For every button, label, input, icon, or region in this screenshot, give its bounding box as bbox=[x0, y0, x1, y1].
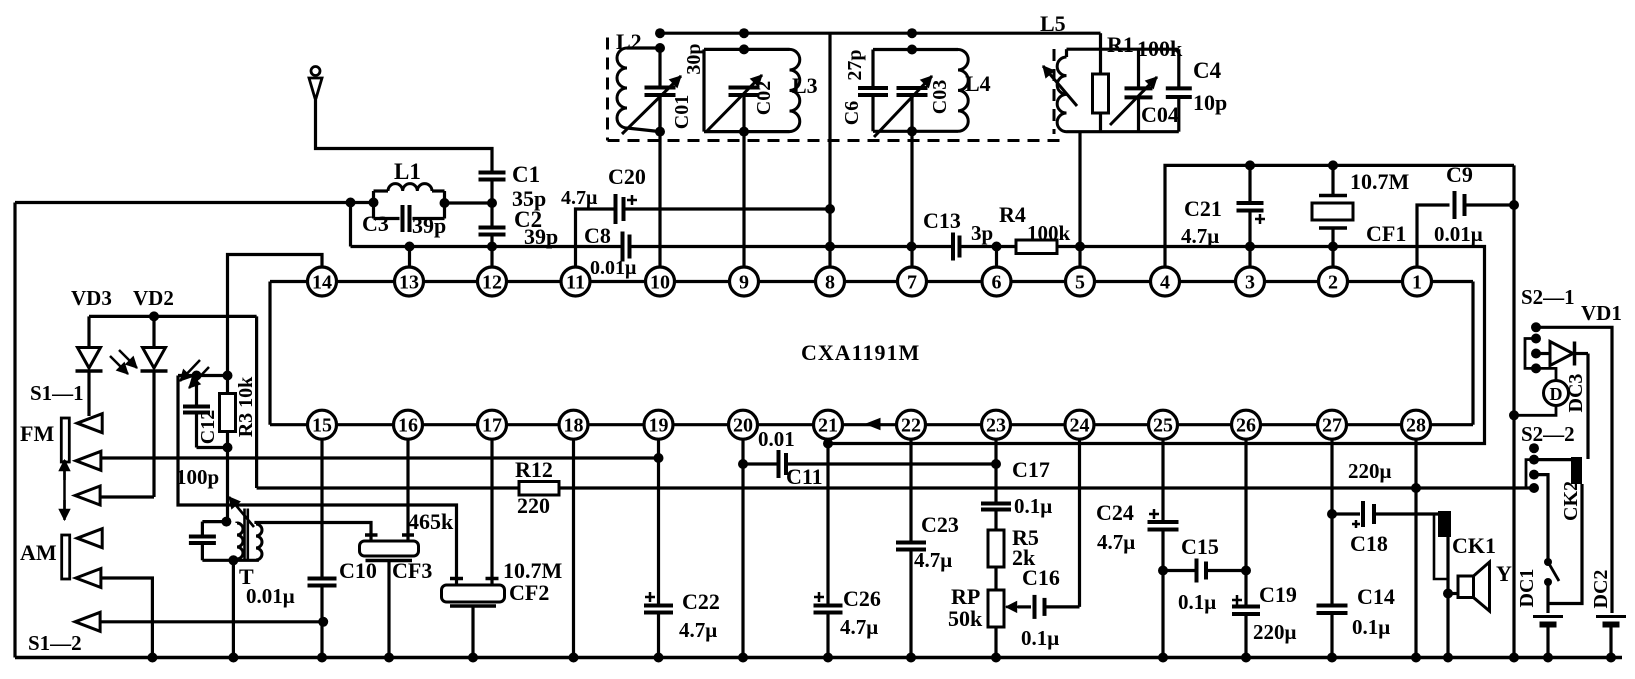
node: C22 ground bbox=[654, 653, 664, 663]
wire: outer frame left rail from top-left corner down to ground rail bbox=[13, 203, 16, 658]
node: CK1 ground bbox=[1443, 653, 1453, 663]
variable capacitor C01 bbox=[622, 48, 681, 134]
svg-text:S2—1: S2—1 bbox=[1521, 285, 1575, 309]
potentiometer RP bbox=[988, 567, 1004, 658]
svg-text:4.7μ: 4.7μ bbox=[840, 615, 878, 639]
capacitor C14 bbox=[1317, 606, 1348, 658]
wire: pin 27 drop bbox=[1330, 439, 1333, 606]
node: C15 at pin 26 drop bbox=[1241, 566, 1251, 576]
node: L1 tank feed junction bbox=[346, 198, 356, 208]
wire: AM contact down to ground bbox=[101, 578, 152, 658]
svg-text:9: 9 bbox=[739, 272, 749, 294]
wire: R3 bottom down to oscillator coil T bbox=[226, 448, 229, 522]
ceramic filter CF2 10.7M bbox=[442, 579, 505, 658]
node: C21 top bbox=[1245, 160, 1255, 170]
svg-text:CK2: CK2 bbox=[1560, 481, 1582, 521]
svg-text:C26: C26 bbox=[843, 586, 881, 611]
capacitor C12 bbox=[178, 376, 228, 448]
node: DC3 contact bbox=[1531, 363, 1541, 373]
wire: battery contact via jack switch bbox=[1534, 475, 1548, 562]
node: crystal bottom on rail bbox=[1328, 242, 1338, 252]
capacitor C23 bbox=[896, 543, 926, 658]
node: jack switch bottom bbox=[1544, 578, 1552, 586]
wire: 100p branch down and right to CF2 bbox=[178, 376, 457, 579]
tank box for C02/L3 bbox=[704, 49, 790, 131]
svg-text:C8: C8 bbox=[584, 223, 611, 248]
svg-text:VD3: VD3 bbox=[71, 286, 112, 310]
svg-text:S1—1: S1—1 bbox=[30, 381, 84, 405]
node: pin18 ground bbox=[569, 653, 579, 663]
svg-text:10: 10 bbox=[650, 272, 670, 294]
node: L2 top bbox=[655, 43, 665, 53]
wire: drop from feed to AGC rail bbox=[349, 203, 352, 247]
capacitor C2 bbox=[479, 226, 506, 230]
capacitor C21 electrolytic bbox=[1237, 165, 1266, 267]
node: C26 ground bbox=[823, 653, 833, 663]
wire: top feed from frame to L1 tank bbox=[15, 201, 374, 204]
node: battery contact bbox=[1529, 470, 1539, 480]
node: pin5 on rail bbox=[1075, 242, 1085, 252]
node: tank left bbox=[369, 198, 379, 208]
svg-text:C24: C24 bbox=[1096, 500, 1134, 525]
svg-text:C18: C18 bbox=[1350, 531, 1388, 556]
svg-text:AM: AM bbox=[20, 540, 57, 565]
diode VD1 bbox=[1536, 342, 1588, 366]
node: C12 lead top bbox=[192, 371, 202, 381]
svg-text:220μ: 220μ bbox=[1253, 620, 1297, 644]
capacitor C26 electrolytic bbox=[814, 592, 843, 658]
node: pin20 ground bbox=[738, 653, 748, 663]
wire: pin 25 drop bbox=[1161, 439, 1164, 522]
node: VD1 anode bbox=[1531, 349, 1541, 359]
svg-text:4.7μ: 4.7μ bbox=[914, 548, 952, 572]
capacitor C11 bbox=[777, 450, 781, 478]
svg-text:3: 3 bbox=[1245, 272, 1255, 294]
svg-text:D: D bbox=[1550, 384, 1563, 404]
capacitor C3 (in tank bottom edge) bbox=[374, 191, 445, 232]
dashed divider before L5 section bbox=[1053, 49, 1056, 134]
switch contact (AM line) bbox=[76, 569, 101, 588]
svg-text:R3 10k: R3 10k bbox=[235, 376, 257, 437]
tank box for C6/C03/L4 bbox=[873, 50, 958, 132]
node: T bottom bbox=[228, 555, 238, 565]
svg-text:18: 18 bbox=[564, 415, 584, 437]
wire: V+ branch down to supply rail bbox=[255, 316, 258, 488]
svg-text:0.01μ: 0.01μ bbox=[246, 584, 295, 608]
svg-text:C03: C03 bbox=[929, 80, 951, 114]
svg-text:0.1μ: 0.1μ bbox=[1352, 615, 1390, 639]
svg-text:C13: C13 bbox=[923, 208, 961, 233]
node: R3/C12 top bbox=[223, 371, 233, 381]
variable capacitor C03 bbox=[874, 76, 932, 137]
svg-text:DC1: DC1 bbox=[1516, 569, 1538, 608]
VD3 light arrows bbox=[110, 350, 137, 374]
wire: pin 19 drop bbox=[657, 439, 660, 606]
svg-text:8: 8 bbox=[825, 272, 835, 294]
dashed tuning-gang box left edge bbox=[606, 38, 609, 141]
node: T primary top bbox=[221, 517, 231, 527]
pin 4 bbox=[1151, 267, 1180, 296]
node: V+ rail end bbox=[1529, 483, 1539, 493]
svg-text:4.7μ: 4.7μ bbox=[561, 187, 598, 209]
switch S2-2 pole contact bbox=[1529, 443, 1539, 453]
svg-text:C10: C10 bbox=[339, 558, 377, 583]
switch contact (AM top) bbox=[77, 529, 102, 548]
svg-text:C11: C11 bbox=[786, 464, 823, 489]
svg-text:22: 22 bbox=[901, 415, 921, 437]
IC CXA1191M body outline bbox=[270, 282, 1473, 425]
node: right rail ground bbox=[1509, 653, 1519, 663]
svg-text:C9: C9 bbox=[1446, 162, 1473, 187]
inductor L2 bbox=[617, 48, 660, 132]
wire: pin 6 riser bbox=[995, 247, 998, 268]
node: DC1 ground bbox=[1543, 653, 1553, 663]
wire: pin 23 drop bbox=[994, 439, 997, 504]
pin 25 bbox=[1149, 410, 1178, 439]
wire: pin 22 drop bbox=[909, 439, 912, 543]
svg-text:100k: 100k bbox=[1137, 36, 1183, 61]
variable capacitor C02 bbox=[706, 75, 762, 132]
wire: VD2 cathode to contact bbox=[100, 495, 154, 498]
svg-text:C22: C22 bbox=[682, 589, 720, 614]
svg-text:24: 24 bbox=[1070, 415, 1090, 437]
svg-text:5: 5 bbox=[1075, 272, 1085, 294]
capacitor C22 electrolytic bbox=[644, 592, 673, 658]
svg-text:C16: C16 bbox=[1022, 565, 1060, 590]
wire: tank to C1/C2 node bbox=[445, 201, 493, 204]
capacitor C17 bbox=[981, 502, 1011, 506]
svg-text:Y: Y bbox=[1496, 561, 1512, 586]
dashed tuning-gang box bottom edge bbox=[608, 139, 1062, 142]
svg-text:23: 23 bbox=[986, 415, 1006, 437]
switch contact (VD2 line) bbox=[75, 486, 100, 505]
svg-text:L5: L5 bbox=[1040, 11, 1066, 36]
node: C19 ground bbox=[1241, 653, 1251, 663]
wire: pin 9 riser to tank C02 bbox=[742, 96, 745, 268]
node: C24/C15 junction bbox=[1158, 566, 1168, 576]
wire: pin 7 riser through AM tank to top rail bbox=[910, 96, 913, 268]
svg-text:L1: L1 bbox=[394, 159, 421, 184]
switch contact (S1-2 bottom) bbox=[75, 612, 100, 631]
svg-text:CF1: CF1 bbox=[1366, 221, 1406, 246]
resistor R12 bbox=[519, 482, 559, 496]
wire: pin 14 feed from R3 branch bbox=[228, 255, 323, 376]
svg-text:12: 12 bbox=[482, 272, 502, 294]
node: speaker tap bbox=[1443, 589, 1453, 599]
pin 12 bbox=[478, 267, 507, 296]
antenna bbox=[309, 67, 322, 101]
jack CK2 sleeve contact bbox=[1571, 457, 1582, 484]
wire: pin 20 drop to ground bbox=[741, 439, 744, 658]
pin 5 bbox=[1066, 267, 1095, 296]
svg-text:4.7μ: 4.7μ bbox=[1181, 224, 1219, 248]
wire: S2-2 to CK2 sleeve bbox=[1534, 458, 1571, 461]
node: L2 bottom bbox=[655, 127, 665, 137]
wire: jack common link bbox=[1548, 484, 1582, 604]
svg-text:CXA1191M: CXA1191M bbox=[801, 340, 920, 365]
switch contact (VD3 to S1-1) bbox=[77, 414, 102, 433]
svg-text:DC2: DC2 bbox=[1590, 570, 1612, 609]
wire: LED anode rail bbox=[89, 315, 257, 318]
node: RP ground bbox=[991, 653, 1001, 663]
slide arrow between FM and AM bbox=[59, 460, 70, 520]
svg-text:R1: R1 bbox=[1107, 32, 1134, 57]
capacitor C24 electrolytic bbox=[1148, 509, 1179, 658]
pin 20 bbox=[729, 410, 758, 439]
svg-text:C20: C20 bbox=[608, 164, 646, 189]
wire: pin 15 drop with bypass cap bbox=[308, 439, 337, 658]
capacitor C6 (left edge) bbox=[858, 86, 888, 90]
svg-text:10p: 10p bbox=[1193, 90, 1227, 115]
pin 18 bbox=[559, 410, 588, 439]
node: DC3 on ground rail bbox=[1509, 410, 1519, 420]
wire: T secondary to CF3 bbox=[256, 523, 371, 535]
pin 19 bbox=[644, 410, 673, 439]
svg-text:17: 17 bbox=[482, 415, 502, 437]
wire: antenna lead to C1 bbox=[316, 100, 493, 172]
pin 28 bbox=[1402, 410, 1431, 439]
node: pin15 ground bbox=[317, 653, 327, 663]
capacitor C16 bbox=[1018, 595, 1080, 619]
capacitor C13 bbox=[951, 233, 955, 261]
wire: C16 up to pin 24 bbox=[1078, 439, 1081, 607]
node: pin20 at C11 rail bbox=[738, 459, 748, 469]
svg-text:0.1μ: 0.1μ bbox=[1178, 590, 1216, 614]
svg-text:27p: 27p bbox=[844, 49, 866, 80]
resistor R3 bbox=[220, 376, 236, 448]
inductor L5 adjustable bbox=[1043, 49, 1077, 132]
node: top rail at pin9 tank bbox=[739, 28, 749, 38]
signal arrow on pin21-22 segment bbox=[866, 419, 880, 430]
node: C20 at pin8 drop bbox=[825, 204, 835, 214]
wire: pin 26 drop bbox=[1244, 439, 1247, 607]
pin 11 bbox=[561, 267, 590, 296]
node: pin7/C13 junction bbox=[907, 242, 917, 252]
node: C24 ground bbox=[1158, 653, 1168, 663]
node: VD2 anode bbox=[149, 311, 159, 321]
wire: pin 18 drop to ground bbox=[572, 439, 575, 658]
svg-text:50k: 50k bbox=[948, 606, 983, 631]
wire: C11 rail to pin 23 bbox=[786, 462, 996, 465]
svg-text:L2: L2 bbox=[616, 29, 642, 54]
svg-text:C02: C02 bbox=[753, 81, 775, 115]
wire: pin 8 riser to top rail bbox=[828, 33, 831, 267]
pin 9 bbox=[730, 267, 759, 296]
pin 8 bbox=[816, 267, 845, 296]
wire: VD1 cathode down to CK2 bbox=[1586, 354, 1589, 460]
node: jack switch top bbox=[1544, 558, 1552, 566]
wire: pin 16 drop to CF3 bbox=[406, 439, 409, 535]
RP wiper arrow bbox=[1006, 606, 1018, 609]
node: CF2 ground bbox=[468, 653, 478, 663]
switch S2-2 throw bracket bbox=[1526, 460, 1534, 488]
wire: C11 rail left part bbox=[743, 462, 779, 465]
VD2 light arrows bbox=[180, 360, 209, 388]
inductor L3 (right edge of tank) bbox=[790, 49, 800, 131]
wire: pin 28 drop to ground bbox=[1414, 439, 1417, 658]
svg-text:C4: C4 bbox=[1193, 58, 1222, 83]
svg-text:4.7μ: 4.7μ bbox=[679, 618, 717, 642]
svg-text:25: 25 bbox=[1153, 415, 1173, 437]
wire: pin 11 riser and C20 link to pin 8 bbox=[576, 209, 616, 267]
node: VD1 anode contact bbox=[1531, 334, 1541, 344]
wire: pin 17 drop to CF2 bbox=[490, 439, 493, 579]
wire: C2 down to pin 12 bbox=[490, 235, 493, 268]
node: AM ground bbox=[147, 653, 157, 663]
node: C03 bottom bbox=[907, 126, 917, 136]
svg-text:FM: FM bbox=[20, 421, 54, 446]
resistor R1 bbox=[1093, 74, 1109, 132]
svg-text:3p: 3p bbox=[971, 221, 993, 245]
svg-text:4.7μ: 4.7μ bbox=[1097, 530, 1135, 554]
battery DC1 bbox=[1533, 617, 1563, 658]
pin 10 bbox=[646, 267, 675, 296]
svg-text:21: 21 bbox=[818, 415, 838, 437]
wire: C13 to R4 bbox=[960, 245, 1017, 248]
LED VD3 bbox=[76, 316, 103, 416]
wire: pin 1 riser to C9 bbox=[1417, 205, 1450, 267]
wire: pin 21 drop bbox=[826, 439, 829, 606]
node: CF3 ground bbox=[384, 653, 394, 663]
node: pin13 tap bbox=[405, 242, 415, 252]
ceramic filter CF3 465k bbox=[360, 535, 419, 658]
wire: V+ rail from R12 to S2-2 bbox=[559, 486, 1534, 489]
svg-text:CF3: CF3 bbox=[392, 558, 432, 583]
node: CK2 contact bbox=[1529, 455, 1539, 465]
pin 15 bbox=[308, 410, 337, 439]
svg-text:R4: R4 bbox=[999, 202, 1026, 227]
node: C03 top bbox=[907, 45, 917, 55]
wire: bottom contact to pin15 branch bbox=[100, 620, 323, 623]
node: C23 ground bbox=[906, 653, 916, 663]
svg-text:0.01: 0.01 bbox=[758, 427, 795, 451]
node: C14 ground bbox=[1327, 653, 1337, 663]
node: R3/C12 bottom bbox=[223, 443, 233, 453]
svg-text:S2—2: S2—2 bbox=[1521, 422, 1575, 446]
wire: C20 to pin 8 drop bbox=[624, 207, 831, 210]
svg-text:220μ: 220μ bbox=[1348, 459, 1392, 483]
svg-text:465k: 465k bbox=[408, 509, 454, 534]
svg-text:2: 2 bbox=[1328, 272, 1338, 294]
wire: C9 to right rail bbox=[1465, 203, 1515, 206]
capacitor C8 bbox=[621, 232, 625, 262]
node: top rail at AM tank bbox=[907, 28, 917, 38]
svg-text:C17: C17 bbox=[1012, 457, 1050, 482]
svg-text:C01: C01 bbox=[671, 95, 693, 129]
svg-text:11: 11 bbox=[566, 272, 585, 294]
oscillator transformer T bbox=[189, 509, 262, 561]
T adjustment arrow bbox=[229, 497, 254, 527]
jack CK1 contact bbox=[1434, 511, 1451, 658]
wire: S2-1 to DC2 battery bbox=[1536, 327, 1612, 613]
switch S2-1 throw bracket bbox=[1525, 339, 1536, 369]
node: C02 top bbox=[739, 44, 749, 54]
svg-text:100k: 100k bbox=[1027, 221, 1071, 245]
pin 3 bbox=[1236, 267, 1265, 296]
svg-text:26: 26 bbox=[1236, 415, 1256, 437]
svg-text:30p: 30p bbox=[683, 43, 705, 74]
pin 26 bbox=[1232, 410, 1261, 439]
wire: switch to DC1 battery bbox=[1546, 582, 1549, 613]
inductor L1 (top of tank) bbox=[374, 184, 445, 191]
svg-text:L3: L3 bbox=[792, 73, 818, 98]
svg-text:19: 19 bbox=[649, 415, 669, 437]
node: C2 on AGC rail bbox=[487, 242, 497, 252]
L5 tank top edge bbox=[1067, 48, 1179, 51]
wire: top rail corner into L5 tank bbox=[1099, 33, 1102, 74]
svg-text:DC3: DC3 bbox=[1565, 374, 1587, 413]
capacitor C1 bbox=[479, 171, 506, 175]
svg-text:L4: L4 bbox=[965, 71, 991, 96]
node: tank right bbox=[440, 198, 450, 208]
capacitor C19 electrolytic bbox=[1232, 595, 1260, 658]
node: crystal top bbox=[1328, 160, 1338, 170]
svg-text:27: 27 bbox=[1322, 415, 1342, 437]
svg-text:14: 14 bbox=[312, 272, 332, 294]
wire: V+ rail from R4 wrapping around IC right side to pin 21 bbox=[828, 247, 1485, 444]
svg-text:0.1μ: 0.1μ bbox=[1014, 494, 1052, 518]
svg-text:CF2: CF2 bbox=[509, 580, 549, 605]
svg-text:S1—2: S1—2 bbox=[28, 631, 82, 655]
wire: V+ rail with R12 bbox=[257, 486, 519, 489]
battery DC2 bbox=[1596, 617, 1626, 658]
wire: C1 to node bbox=[490, 180, 493, 228]
svg-text:C12: C12 bbox=[197, 410, 219, 444]
wire: stub down to pin 13 bbox=[408, 247, 411, 268]
svg-text:20: 20 bbox=[733, 415, 753, 437]
pin 16 bbox=[394, 410, 423, 439]
inductor L4 (right edge) bbox=[958, 50, 968, 132]
svg-text:CK1: CK1 bbox=[1452, 533, 1496, 558]
svg-text:C04: C04 bbox=[1141, 102, 1179, 127]
crystal 10.7M / CF1 bbox=[1312, 165, 1353, 267]
node: pin6 junction bbox=[992, 242, 1002, 252]
pin 24 bbox=[1065, 410, 1094, 439]
switch S2-1 pole bbox=[1531, 322, 1541, 332]
node: FM line end at pin 19 drop bbox=[654, 453, 664, 463]
jack DC3 plug circle bbox=[1514, 368, 1569, 415]
wire: AGC rail y246 from tank drop to C8 bbox=[351, 245, 623, 248]
switch S1-2 AM wiper bar bbox=[62, 535, 70, 579]
svg-text:1: 1 bbox=[1412, 272, 1422, 294]
pin 1 bbox=[1403, 267, 1432, 296]
svg-text:28: 28 bbox=[1406, 415, 1426, 437]
pin 14 bbox=[308, 267, 337, 296]
svg-text:16: 16 bbox=[398, 415, 418, 437]
capacitor C15 bbox=[1163, 559, 1246, 583]
node: pin8 on rail bbox=[825, 242, 835, 252]
svg-text:C19: C19 bbox=[1259, 582, 1297, 607]
capacitor C20 electrolytic bbox=[616, 194, 638, 224]
node: C18 tap on pin 27 drop bbox=[1327, 509, 1337, 519]
switch S1-1 FM wiper bar bbox=[61, 418, 69, 462]
svg-text:R12: R12 bbox=[515, 457, 553, 482]
capacitor C18 bbox=[1332, 501, 1438, 528]
capacitor C9 bbox=[1453, 191, 1457, 219]
node: pin28 ground bbox=[1411, 653, 1421, 663]
svg-text:C14: C14 bbox=[1357, 584, 1395, 609]
pin 7 bbox=[898, 267, 927, 296]
node: C9 on right rail bbox=[1509, 200, 1519, 210]
ground rail along bottom bbox=[15, 656, 1622, 660]
node: pin 28 on V+ rail bbox=[1411, 483, 1421, 493]
capacitor C4 (right edge) bbox=[1166, 49, 1192, 132]
svg-text:0.1μ: 0.1μ bbox=[1021, 626, 1059, 650]
svg-text:13: 13 bbox=[399, 272, 419, 294]
svg-text:15: 15 bbox=[312, 415, 332, 437]
wire: rail from C8 to C13 bbox=[630, 245, 954, 248]
svg-text:220: 220 bbox=[517, 493, 550, 518]
